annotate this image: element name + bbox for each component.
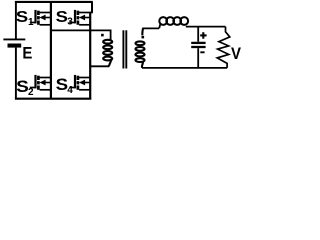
resistor load — [217, 27, 230, 68]
transformer secondary winding — [136, 29, 145, 68]
wire right bridge leg (S3 drain, node B, S4 source) — [91, 2, 93, 12]
svg-text:2: 2 — [28, 87, 34, 98]
capacitor C plates — [191, 42, 205, 44]
capacitor plus sign — [200, 34, 206, 36]
transformer primary polarity dot — [101, 34, 104, 37]
capacitor minus sign — [200, 51, 204, 53]
svg-text:S: S — [16, 78, 29, 96]
svg-text:4: 4 — [67, 85, 73, 96]
wire top rail — [15, 1, 93, 3]
wire bottom output rail — [142, 67, 227, 69]
svg-text:3: 3 — [67, 17, 73, 28]
transistor S1 — [30, 10, 51, 25]
wire battery top lead — [15, 2, 17, 40]
inductor L — [159, 17, 188, 25]
wire bottom rail — [15, 98, 91, 100]
svg-text:1: 1 — [28, 17, 34, 28]
wire S3 drain extension — [90, 12, 93, 14]
wire node B to transformer primary bottom stub — [90, 65, 109, 67]
transformer primary winding — [103, 40, 112, 67]
battery E negative plate — [8, 44, 22, 48]
transistor S4 — [69, 75, 90, 90]
wire secondary top to inductor — [142, 27, 159, 29]
transistor S3 — [69, 10, 90, 25]
capacitor C bottom lead — [197, 48, 199, 68]
transformer core — [122, 30, 124, 68]
wire inductor to load corner — [186, 26, 226, 28]
transformer secondary polarity dot — [142, 36, 145, 39]
battery E positive plate — [3, 38, 25, 40]
svg-text:S: S — [16, 9, 29, 26]
svg-text:E: E — [22, 44, 32, 63]
wire node A to transformer primary top — [51, 30, 111, 40]
wire left bridge leg (S1 drain, node A, S2 source) — [50, 2, 52, 99]
capacitor C top lead — [197, 27, 199, 42]
wire battery bottom lead — [15, 48, 17, 99]
svg-text:V: V — [231, 44, 242, 63]
transistor S2 — [30, 75, 51, 90]
